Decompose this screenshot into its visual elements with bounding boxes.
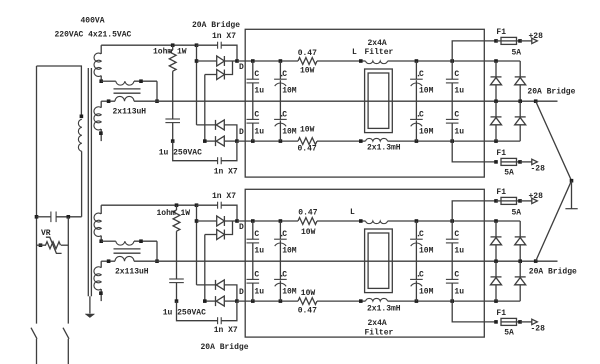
wire -28 feed top xyxy=(452,141,496,162)
node snubber bottom top xyxy=(171,139,175,143)
svg-text:400VA: 400VA xyxy=(81,17,105,26)
diode D7 clamp bot xyxy=(495,261,497,277)
capacitor C 10M x280 row2 top xyxy=(279,101,281,119)
svg-text:-28: -28 xyxy=(531,165,546,174)
svg-text:C: C xyxy=(254,270,259,279)
svg-text:0.47: 0.47 xyxy=(298,209,317,218)
filter box bot xyxy=(245,189,484,337)
filter choke core rect bot xyxy=(365,229,393,293)
svg-text:F1: F1 xyxy=(496,28,506,37)
wire snubber mid bot xyxy=(176,231,178,279)
svg-text:1n X7: 1n X7 xyxy=(212,32,236,41)
node cap col4 top top xyxy=(450,59,454,63)
svg-text:D: D xyxy=(239,128,244,137)
choke L-cm bot winding A xyxy=(101,240,116,242)
wire rail A top (winding1 top) xyxy=(101,44,196,46)
wire clamp top rail top xyxy=(519,61,521,77)
fuse F1 5A neg bot xyxy=(501,318,517,325)
capacitor C 10M x416 row1 top xyxy=(415,61,417,79)
wire VR right xyxy=(61,244,68,246)
node X-cap left xyxy=(35,215,39,219)
svg-text:+28: +28 xyxy=(529,32,544,41)
diode D3 top xyxy=(197,124,216,126)
earth ground on core xyxy=(89,296,91,313)
svg-text:10W: 10W xyxy=(301,228,316,237)
fuse F1 5A neg top xyxy=(501,158,517,165)
diode D1 top xyxy=(197,60,217,62)
capacitor 1n X7 upper top xyxy=(217,42,219,49)
svg-text:C: C xyxy=(282,110,287,119)
capacitor C 1u x253 row1 top xyxy=(252,61,254,79)
fuse F1 5A pos top xyxy=(496,40,501,42)
svg-text:2x1.3mH: 2x1.3mH xyxy=(367,305,401,314)
svg-text:C: C xyxy=(254,110,259,119)
svg-text:1u 250VAC: 1u 250VAC xyxy=(163,308,206,317)
wire -28 feed bot xyxy=(452,301,496,322)
svg-text:1n X7: 1n X7 xyxy=(212,192,236,201)
node VR left xyxy=(39,243,43,247)
svg-text:C: C xyxy=(454,70,459,79)
capacitor 1u 250VAC bot xyxy=(169,278,184,280)
node fuse pos in top xyxy=(494,39,498,43)
resistor 0.47 10W pos bot xyxy=(298,218,317,225)
node D2 anode rail bot xyxy=(203,299,207,303)
svg-text:220VAC 4x21.5VAC: 220VAC 4x21.5VAC xyxy=(55,31,132,40)
capacitor C 1u x452 row2 top xyxy=(451,101,453,119)
svg-text:10M: 10M xyxy=(419,246,434,255)
svg-text:10M: 10M xyxy=(282,246,297,255)
choke L-cm bot winding B xyxy=(101,260,115,262)
node snubber top bot xyxy=(175,203,179,207)
svg-text:10M: 10M xyxy=(419,288,434,297)
diode D8 clamp bot xyxy=(519,261,521,277)
svg-text:1u: 1u xyxy=(254,128,264,137)
node D2 anode rail top xyxy=(203,139,207,143)
node X-cap right xyxy=(67,215,71,219)
node choke B in bot xyxy=(107,259,111,263)
node rail A bridge top xyxy=(195,43,199,47)
diode D2 top xyxy=(205,74,217,76)
node rail A bridge bot xyxy=(195,203,199,207)
wire +28 feed bot xyxy=(452,201,496,221)
diode D6 clamp bot xyxy=(515,236,526,238)
svg-text:1u: 1u xyxy=(454,246,464,255)
svg-text:2x113uH: 2x113uH xyxy=(113,108,147,117)
svg-text:1u: 1u xyxy=(454,128,464,137)
svg-text:-28: -28 xyxy=(531,325,546,334)
wire D- rail mid top xyxy=(317,140,366,142)
capacitor C 1u x253 row2 top xyxy=(252,101,254,119)
node L2 in top xyxy=(359,139,363,143)
svg-text:L: L xyxy=(350,208,355,217)
svg-text:C: C xyxy=(419,70,424,79)
wire mid rail bot xyxy=(157,260,536,262)
svg-text:10M: 10M xyxy=(419,86,434,95)
capacitor 1n X7 lower bot xyxy=(177,301,218,321)
svg-text:10M: 10M xyxy=(282,288,297,297)
wire rail A to cap top xyxy=(197,44,218,46)
diode D3 bot xyxy=(197,284,216,286)
node clamp mid1 top xyxy=(494,99,498,103)
wire mains N vertical xyxy=(67,217,69,324)
node clamp mid1 bot xyxy=(494,259,498,263)
node cap col2 bot bot xyxy=(279,299,283,303)
filter box top xyxy=(245,29,484,177)
wire anode2 column bot xyxy=(204,235,206,302)
node cap col4 bot bot xyxy=(450,299,454,303)
wire clamp bottom rail top xyxy=(519,140,521,142)
wire -28 out bot xyxy=(520,321,532,323)
inductor L neg winding top xyxy=(366,138,388,141)
svg-text:10W: 10W xyxy=(301,289,316,298)
node X center tap bot xyxy=(155,259,159,263)
svg-text:1u: 1u xyxy=(254,288,264,297)
svg-text:10M: 10M xyxy=(419,128,434,137)
wire choke A down link bot xyxy=(156,241,158,261)
node choke A out bot xyxy=(139,239,143,243)
node diode D1 anode top xyxy=(195,59,199,63)
node leader junction xyxy=(570,179,574,183)
choke L-cm bot core xyxy=(114,248,141,250)
node choke A out top xyxy=(139,79,143,83)
svg-text:0.47: 0.47 xyxy=(298,144,317,153)
node cap col1 top top xyxy=(251,59,255,63)
wire -28 out top xyxy=(520,161,532,163)
svg-text:2x4A: 2x4A xyxy=(368,319,387,328)
node D plus bot xyxy=(235,219,239,223)
svg-text:20A Bridge: 20A Bridge xyxy=(527,87,575,96)
svg-text:C: C xyxy=(454,270,459,279)
svg-text:1n X7: 1n X7 xyxy=(214,168,238,177)
diode D8 clamp top xyxy=(519,101,521,117)
wire D+ rail left bot xyxy=(237,220,298,222)
node cap col3 bot bot xyxy=(415,299,419,303)
wire mid rail top xyxy=(157,100,536,102)
wire D+ rail mid bot xyxy=(317,220,366,222)
svg-text:20A Bridge: 20A Bridge xyxy=(192,21,240,30)
wire D+ rail left top xyxy=(237,60,298,62)
wire +28 out bot xyxy=(520,200,532,202)
resistor 0.47 10W pos top xyxy=(298,58,317,65)
node winding2 bottom top xyxy=(99,131,103,135)
capacitor C 1u x452 row1 bot xyxy=(451,221,453,239)
wire X-cap right xyxy=(56,216,82,218)
wire D- rail left top xyxy=(237,140,298,142)
wire mid rail tail top xyxy=(536,100,558,102)
wire anode column top xyxy=(196,45,198,125)
svg-text:1n X7: 1n X7 xyxy=(214,326,238,335)
node choke B in top xyxy=(107,99,111,103)
svg-text:2x1.3mH: 2x1.3mH xyxy=(367,143,401,152)
choke L-cm top winding B xyxy=(101,100,115,102)
svg-text:10W: 10W xyxy=(300,125,315,134)
wire D+ rail right bot xyxy=(388,220,521,222)
wire D+ rail right top xyxy=(388,60,521,62)
node clamp col1 bot top xyxy=(494,139,498,143)
wire X-cap left xyxy=(37,216,51,218)
svg-text:F1: F1 xyxy=(496,149,506,158)
svg-text:C: C xyxy=(254,70,259,79)
svg-text:D: D xyxy=(239,288,244,297)
capacitor C 10M x416 row2 bot xyxy=(415,261,417,279)
resistor 1ohm 1W bot xyxy=(176,205,178,210)
wire D- rail left bot xyxy=(237,300,298,302)
svg-text:C: C xyxy=(282,270,287,279)
wire snubber mid top xyxy=(172,71,174,119)
resistor 0.47 10W neg bot xyxy=(298,298,317,305)
capacitor X line filter xyxy=(50,212,52,223)
svg-text:C: C xyxy=(282,70,287,79)
node X center tap top xyxy=(155,99,159,103)
transformer T1 secondary winding top-2 xyxy=(100,101,102,108)
leader line bottom xyxy=(536,181,572,261)
svg-text:C: C xyxy=(454,230,459,239)
svg-text:10M: 10M xyxy=(282,128,297,137)
diode D5 clamp top xyxy=(495,61,497,77)
node L2 in bot xyxy=(359,299,363,303)
node fuse pos out top xyxy=(518,39,522,43)
node diode D1 anode bot xyxy=(195,219,199,223)
wire D- rail mid bot xyxy=(317,300,366,302)
capacitor C 1u x452 row1 top xyxy=(451,61,453,79)
svg-text:1u: 1u xyxy=(254,246,264,255)
choke L-cm top core xyxy=(114,88,141,90)
capacitor C 10M x280 row1 bot xyxy=(279,221,281,239)
node fuse pos out bot xyxy=(518,199,522,203)
svg-text:10M: 10M xyxy=(282,86,297,95)
diode D7 clamp top xyxy=(495,101,497,117)
wire primary bottom lead xyxy=(81,151,83,217)
svg-text:L: L xyxy=(352,48,357,57)
wire +28 feed top xyxy=(452,41,496,61)
switch S2 mains N xyxy=(63,328,69,339)
node cap col4 bot top xyxy=(450,139,454,143)
transformer T1 secondary winding top-1 xyxy=(100,45,102,54)
inductor L pos winding top xyxy=(366,61,388,64)
svg-text:2x113uH: 2x113uH xyxy=(115,268,149,277)
node cap col3 top top xyxy=(415,59,419,63)
svg-text:0.47: 0.47 xyxy=(298,306,317,315)
arrow -28 top xyxy=(532,159,538,164)
wire clamp top rail bot xyxy=(519,221,521,237)
node leader top xyxy=(534,99,538,103)
wire +28 out top xyxy=(520,40,532,42)
node fuse neg out top xyxy=(518,160,522,164)
node clamp mid2 bot xyxy=(518,259,522,263)
capacitor C 1u x452 row2 bot xyxy=(451,261,453,279)
node clamp col1 top bot xyxy=(494,219,498,223)
capacitor 1u 250VAC top xyxy=(165,118,180,120)
node winding2 bottom bot xyxy=(99,291,103,295)
wire 1n cap to D bot xyxy=(221,205,237,221)
capacitor C 10M x280 row2 bot xyxy=(279,261,281,279)
wire rail A to cap bot xyxy=(197,204,218,206)
inductor L pos winding bot xyxy=(366,221,388,224)
svg-text:VR: VR xyxy=(41,229,51,238)
node D minus top xyxy=(235,139,239,143)
svg-text:C: C xyxy=(454,110,459,119)
svg-text:20A Bridge: 20A Bridge xyxy=(529,267,577,276)
varistor VR slash xyxy=(46,237,62,253)
fuse F1 5A pos bot xyxy=(496,200,501,202)
svg-text:5A: 5A xyxy=(512,48,522,57)
node cap col2 top bot xyxy=(279,219,283,223)
capacitor 1n X7 lower top xyxy=(173,141,218,161)
node fuse neg in top xyxy=(494,160,498,164)
wire VR left xyxy=(37,244,47,246)
svg-text:1u: 1u xyxy=(254,86,264,95)
diode D4 bot xyxy=(205,300,216,302)
diode D5 clamp bot xyxy=(495,221,497,237)
wire choke A down link top xyxy=(156,81,158,101)
svg-text:Filter: Filter xyxy=(365,328,394,337)
chassis ground right xyxy=(571,181,573,209)
wire anode2 column top xyxy=(204,75,206,142)
capacitor C 10M x416 row2 top xyxy=(415,101,417,119)
svg-text:0.47: 0.47 xyxy=(298,49,317,58)
node clamp col1 top top xyxy=(494,59,498,63)
inductor L neg winding bot xyxy=(366,298,388,301)
capacitor C 1u x253 row2 bot xyxy=(252,261,254,279)
diode D4 top xyxy=(205,140,216,142)
leader line top xyxy=(536,101,572,181)
node leader bottom xyxy=(534,259,538,263)
svg-text:C: C xyxy=(419,270,424,279)
node L in bot xyxy=(359,219,363,223)
node fuse neg out bot xyxy=(518,320,522,324)
node snubber top top xyxy=(171,43,175,47)
wire D- rail right top xyxy=(388,140,521,142)
svg-text:C: C xyxy=(254,230,259,239)
arrow -28 bot xyxy=(532,319,538,324)
node cap col4 top bot xyxy=(450,219,454,223)
svg-text:C: C xyxy=(282,230,287,239)
node winding1 bottom bot xyxy=(99,239,103,243)
svg-text:+28: +28 xyxy=(529,192,544,201)
svg-text:1u 250VAC: 1u 250VAC xyxy=(159,148,202,157)
svg-text:D: D xyxy=(239,223,244,232)
node snubber bottom bot xyxy=(175,299,179,303)
node cap col3 top bot xyxy=(415,219,419,223)
wire D- rail right bot xyxy=(388,300,521,302)
svg-text:C: C xyxy=(419,110,424,119)
svg-text:1u: 1u xyxy=(454,288,464,297)
resistor 0.47 10W neg top xyxy=(298,138,317,145)
switch S1 mains L xyxy=(31,328,37,339)
wire clamp bottom rail bot xyxy=(519,300,521,302)
svg-text:D: D xyxy=(239,63,244,72)
svg-text:1ohm 1W: 1ohm 1W xyxy=(157,209,191,218)
svg-text:C: C xyxy=(419,230,424,239)
wire mains L vertical xyxy=(36,66,38,324)
diode D1 bot xyxy=(197,220,217,222)
capacitor 1n X7 upper bot xyxy=(217,202,219,209)
arrow +28 top xyxy=(532,38,538,43)
wire anode column bot xyxy=(196,205,198,285)
node cap col1 bot top xyxy=(251,139,255,143)
wire rail A bot (winding1 top) xyxy=(101,204,196,206)
transformer T1 secondary winding bot-2 xyxy=(100,261,102,268)
resistor 1ohm 1W top xyxy=(172,45,174,50)
wire mains top link xyxy=(37,66,82,116)
node L in top xyxy=(359,59,363,63)
transformer T1 core xyxy=(87,68,89,296)
node cap col3 bot top xyxy=(415,139,419,143)
wire 1n cap to D top xyxy=(221,45,237,61)
wire D+ rail mid top xyxy=(317,60,366,62)
wire mid rail tail bot xyxy=(536,260,558,262)
node cap col2 top top xyxy=(279,59,283,63)
svg-text:5A: 5A xyxy=(504,169,514,178)
svg-text:5A: 5A xyxy=(504,329,514,338)
svg-text:1u: 1u xyxy=(454,86,464,95)
transformer T1 primary winding xyxy=(78,119,81,151)
transformer T1 secondary winding bot-1 xyxy=(100,205,102,214)
capacitor C 10M x416 row1 bot xyxy=(415,221,417,239)
svg-text:10W: 10W xyxy=(300,67,315,76)
svg-text:Filter: Filter xyxy=(365,48,394,57)
svg-text:20A Bridge: 20A Bridge xyxy=(201,343,249,352)
node fuse neg in bot xyxy=(494,320,498,324)
filter choke core rect top xyxy=(365,69,393,133)
svg-text:F1: F1 xyxy=(496,188,506,197)
node primary top xyxy=(80,115,84,119)
svg-text:F1: F1 xyxy=(496,309,506,318)
node D minus bot xyxy=(235,299,239,303)
node cap col2 bot top xyxy=(279,139,283,143)
arrow +28 bot xyxy=(532,198,538,203)
svg-text:1ohm 1W: 1ohm 1W xyxy=(153,47,187,56)
capacitor C 10M x280 row1 top xyxy=(279,61,281,79)
node D plus top xyxy=(235,59,239,63)
node winding1 bottom top xyxy=(99,79,103,83)
diode D6 clamp top xyxy=(515,76,526,78)
node clamp col1 bot bot xyxy=(494,299,498,303)
node cap col1 top bot xyxy=(251,219,255,223)
varistor VR xyxy=(46,242,61,249)
svg-text:5A: 5A xyxy=(512,208,522,217)
node clamp mid2 top xyxy=(518,99,522,103)
node fuse pos in bot xyxy=(494,199,498,203)
capacitor C 1u x253 row1 bot xyxy=(252,221,254,239)
choke L-cm top winding A xyxy=(101,80,116,82)
node cap col1 bot bot xyxy=(251,299,255,303)
diode D2 bot xyxy=(205,234,217,236)
